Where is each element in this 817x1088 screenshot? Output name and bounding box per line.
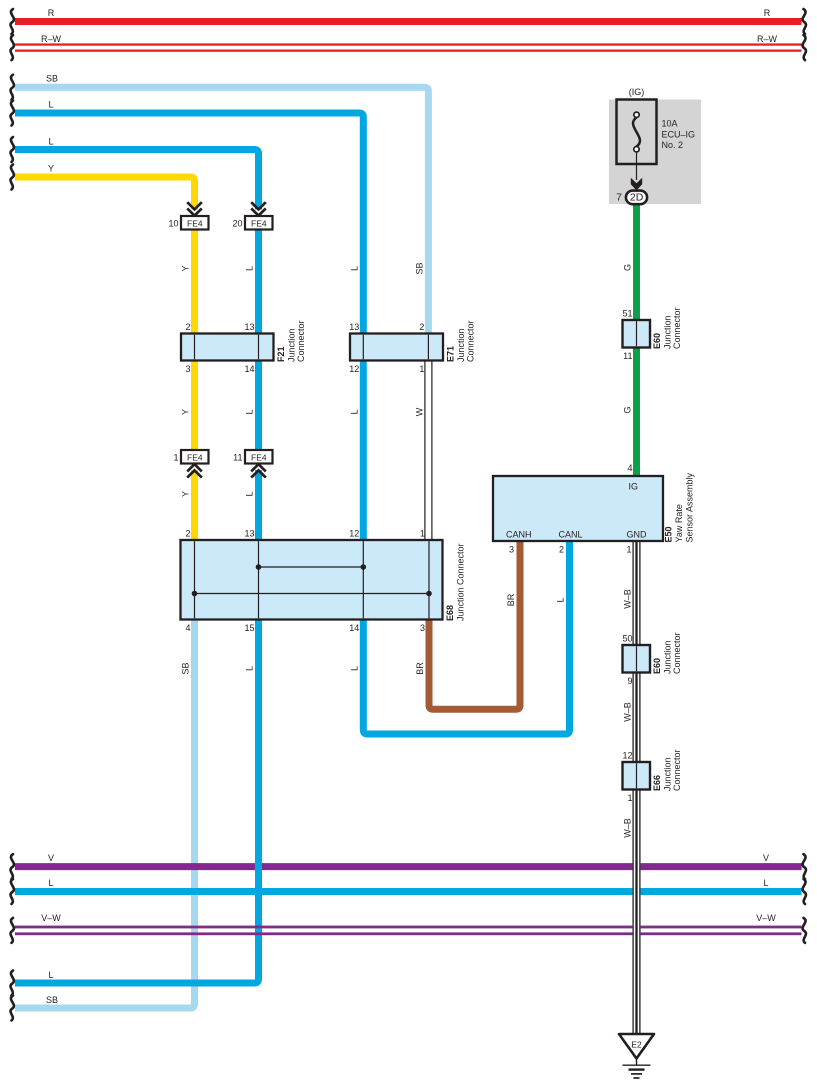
svg-text:W–B: W–B	[623, 702, 633, 722]
svg-text:L: L	[349, 666, 359, 671]
svg-text:3: 3	[509, 545, 514, 555]
junction connector E66 (12/1)	[622, 749, 682, 803]
junction connector E71	[349, 320, 475, 374]
svg-text:Connector: Connector	[672, 749, 682, 791]
svg-text:20: 20	[232, 218, 242, 228]
svg-text:SB: SB	[414, 262, 424, 274]
svg-text:L: L	[349, 409, 359, 414]
svg-text:L: L	[48, 137, 53, 147]
squiggle SB bottom left	[11, 996, 14, 1021]
squiggle V-W left	[11, 918, 14, 943]
svg-text:R–W: R–W	[757, 34, 778, 44]
junction connector E68	[181, 529, 466, 634]
wire L from left to E71 pin 13	[15, 113, 363, 335]
squiggle L bus left	[11, 879, 14, 904]
svg-text:FE4: FE4	[251, 452, 267, 462]
wire R bus	[15, 18, 802, 25]
svg-text:SB: SB	[181, 662, 191, 674]
svg-text:R: R	[48, 8, 55, 18]
svg-text:Junction: Junction	[663, 640, 673, 674]
svg-text:L: L	[245, 266, 255, 271]
svg-text:1: 1	[420, 529, 425, 539]
svg-text:L: L	[48, 100, 53, 110]
svg-text:V–W: V–W	[41, 913, 61, 923]
wire L from E71 pin 12 to E68 pin 12	[360, 359, 367, 543]
svg-text:E50: E50	[664, 526, 674, 542]
svg-text:L: L	[245, 666, 255, 671]
svg-text:1: 1	[627, 793, 632, 803]
svg-text:W–B: W–B	[623, 589, 633, 609]
svg-text:CANL: CANL	[559, 530, 583, 540]
squiggle V-W right	[803, 918, 806, 943]
svg-text:1: 1	[173, 452, 178, 462]
svg-text:L: L	[48, 970, 53, 980]
wire SB from left to E71 pin 2	[15, 87, 428, 335]
fuse ECU-IG No.2	[617, 87, 696, 190]
wire SB from E68 pin 4 down to bottom left	[15, 617, 195, 1008]
wire L from left down through F21 to E68 pin 13	[15, 150, 259, 210]
svg-text:14: 14	[349, 623, 359, 633]
squiggle L left	[11, 101, 14, 126]
svg-text:E2: E2	[631, 1039, 642, 1049]
svg-text:3: 3	[420, 623, 425, 633]
svg-text:Y: Y	[181, 491, 191, 497]
svg-text:Junction: Junction	[287, 328, 297, 362]
svg-text:L: L	[48, 878, 53, 888]
svg-text:L: L	[556, 597, 566, 602]
svg-text:10A: 10A	[662, 119, 678, 129]
junction connector E60 (50/9)	[622, 632, 682, 686]
arrow into connector oval	[631, 178, 642, 191]
svg-text:SB: SB	[46, 995, 58, 1005]
svg-text:L: L	[245, 409, 255, 414]
svg-text:V–W: V–W	[756, 913, 776, 923]
svg-text:E60: E60	[652, 658, 662, 674]
svg-text:11: 11	[233, 452, 242, 462]
wire W from E71 pin 1 to E68 pin 1	[425, 359, 432, 543]
svg-text:R–W: R–W	[41, 34, 62, 44]
wire W-B from E50 GND down to ground E2	[632, 539, 640, 1034]
svg-text:L: L	[763, 878, 768, 888]
internal link pins 13-12	[259, 566, 364, 568]
svg-text:E68: E68	[445, 605, 455, 621]
svg-text:G: G	[623, 264, 633, 271]
svg-text:1: 1	[419, 364, 424, 374]
svg-text:BR: BR	[506, 593, 516, 606]
wire L segment FE4 to E68	[255, 470, 262, 543]
svg-text:13: 13	[349, 322, 359, 332]
svg-text:3: 3	[185, 364, 190, 374]
svg-text:Y: Y	[181, 409, 191, 415]
svg-text:FE4: FE4	[187, 452, 203, 462]
wire V bus	[15, 863, 802, 870]
connector FE4 (10)	[168, 202, 208, 229]
ground E2	[619, 1034, 654, 1078]
svg-text:L: L	[245, 491, 255, 496]
fuse block shaded background	[609, 100, 701, 205]
svg-text:Junction: Junction	[663, 315, 673, 349]
svg-text:4: 4	[185, 623, 190, 633]
svg-text:10: 10	[168, 218, 178, 228]
squiggle V left	[11, 854, 14, 879]
svg-text:G: G	[623, 406, 633, 413]
svg-text:2: 2	[559, 545, 564, 555]
svg-text:Sensor Assembly: Sensor Assembly	[685, 472, 695, 542]
internal link pins 2-1	[195, 593, 430, 595]
svg-text:14: 14	[244, 364, 254, 374]
squiggle R right	[803, 9, 806, 34]
svg-text:L: L	[349, 266, 359, 271]
svg-text:E60: E60	[652, 333, 662, 349]
svg-text:12: 12	[349, 529, 359, 539]
svg-text:15: 15	[244, 623, 254, 633]
svg-text:2D: 2D	[630, 192, 644, 204]
svg-text:W–B: W–B	[623, 818, 633, 838]
svg-text:E71: E71	[446, 346, 456, 362]
wire V-W bus (violet with white stripe)	[15, 926, 802, 936]
svg-text:4: 4	[627, 463, 632, 473]
svg-text:F21: F21	[276, 346, 286, 362]
svg-text:2: 2	[185, 529, 190, 539]
svg-text:IG: IG	[629, 482, 639, 492]
connector FE4 (20)	[232, 202, 272, 229]
wire G from 2D oval to E50 pin 4	[633, 204, 640, 479]
squiggle L bus right	[803, 879, 806, 904]
connector FE4 (11)	[233, 450, 272, 478]
svg-text:Y: Y	[48, 164, 54, 174]
squiggle SB left	[11, 75, 14, 100]
svg-text:Junction Connector: Junction Connector	[456, 543, 466, 621]
svg-text:13: 13	[244, 529, 254, 539]
svg-text:Y: Y	[181, 265, 191, 271]
svg-text:R: R	[764, 8, 771, 18]
squiggle L left	[11, 137, 14, 162]
squiggle Y left	[11, 165, 14, 190]
squiggle V right	[803, 854, 806, 879]
svg-text:V: V	[48, 853, 54, 863]
svg-text:50: 50	[622, 634, 632, 644]
svg-text:Junction: Junction	[456, 328, 466, 362]
svg-text:51: 51	[622, 309, 632, 319]
svg-text:FE4: FE4	[251, 218, 267, 228]
svg-text:V: V	[763, 853, 769, 863]
svg-text:Connector: Connector	[672, 632, 682, 674]
connector oval 2D	[616, 191, 647, 205]
svg-text:2: 2	[185, 322, 190, 332]
svg-text:Junction: Junction	[663, 757, 673, 791]
svg-text:No. 2: No. 2	[662, 140, 684, 150]
svg-text:(IG): (IG)	[629, 87, 645, 97]
connector FE4 (1)	[173, 450, 208, 478]
svg-text:Yaw Rate: Yaw Rate	[674, 504, 684, 542]
wire L bus	[15, 888, 802, 895]
yaw rate sensor E50	[493, 463, 695, 555]
svg-text:2: 2	[419, 322, 424, 332]
wire Y segment FE4 to FE4	[191, 229, 198, 450]
wire R-W bus (red with white stripe)	[15, 43, 802, 51]
wire L from E68 pin 15 down to bottom left	[15, 617, 259, 983]
svg-text:7: 7	[616, 192, 622, 204]
squiggle R left	[11, 9, 14, 34]
wire Y segment FE4 to E68 pin 2	[191, 470, 198, 543]
svg-text:SB: SB	[46, 74, 58, 84]
squiggle R-W left	[11, 35, 14, 60]
junction connector E60 (51/11)	[622, 307, 682, 361]
wire Y from left down to FE4	[15, 177, 195, 210]
junction connector F21	[181, 320, 306, 374]
squiggle L bottom left	[11, 971, 14, 996]
svg-text:Connector: Connector	[672, 307, 682, 349]
wire L from E68 pin 14 to E50 CANL	[363, 538, 569, 734]
svg-text:12: 12	[349, 364, 359, 374]
svg-text:E66: E66	[652, 775, 662, 791]
svg-text:CANH: CANH	[506, 530, 532, 540]
svg-text:Connector: Connector	[466, 320, 476, 362]
svg-text:BR: BR	[415, 662, 425, 675]
svg-text:13: 13	[244, 322, 254, 332]
svg-text:1: 1	[626, 545, 631, 555]
svg-text:FE4: FE4	[187, 218, 203, 228]
svg-text:Connector: Connector	[296, 320, 306, 362]
wire L segment FE4 to FE4	[255, 229, 262, 450]
svg-text:9: 9	[627, 676, 632, 686]
svg-text:12: 12	[622, 751, 632, 761]
wire BR from E68 pin 3 to E50 CANH	[429, 538, 520, 709]
svg-text:GND: GND	[627, 530, 648, 540]
svg-text:ECU–IG: ECU–IG	[662, 129, 696, 139]
svg-text:W: W	[414, 407, 424, 416]
squiggle R-W right	[803, 35, 806, 60]
svg-text:11: 11	[623, 351, 632, 361]
